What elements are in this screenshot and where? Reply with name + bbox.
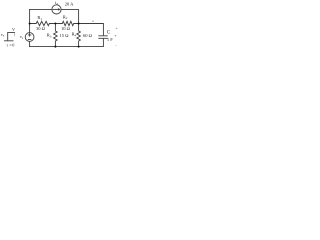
svg-text:R1: R1 <box>37 15 42 21</box>
svg-text:t=0: t=0 <box>7 42 15 47</box>
svg-text:10 Ω: 10 Ω <box>61 26 71 31</box>
svg-text:a: a <box>92 19 94 23</box>
svg-text:iΔ: iΔ <box>55 0 58 6</box>
svg-text:vs: vs <box>20 34 24 40</box>
svg-text:V: V <box>12 27 15 32</box>
svg-text:v: v <box>115 33 117 37</box>
svg-text:R3: R3 <box>47 33 52 39</box>
svg-text:−: − <box>115 44 117 48</box>
svg-text:20 A: 20 A <box>65 1 74 6</box>
svg-text:60 Ω: 60 Ω <box>83 33 93 38</box>
svg-text:+: + <box>116 26 118 30</box>
svg-text:vs: vs <box>1 32 5 38</box>
svg-text:1 F: 1 F <box>107 37 113 42</box>
svg-text:C: C <box>107 29 111 35</box>
svg-text:R4: R4 <box>72 32 77 38</box>
svg-text:30 Ω: 30 Ω <box>36 26 46 31</box>
svg-text:15 Ω: 15 Ω <box>60 33 70 38</box>
svg-text:R2: R2 <box>63 14 68 20</box>
